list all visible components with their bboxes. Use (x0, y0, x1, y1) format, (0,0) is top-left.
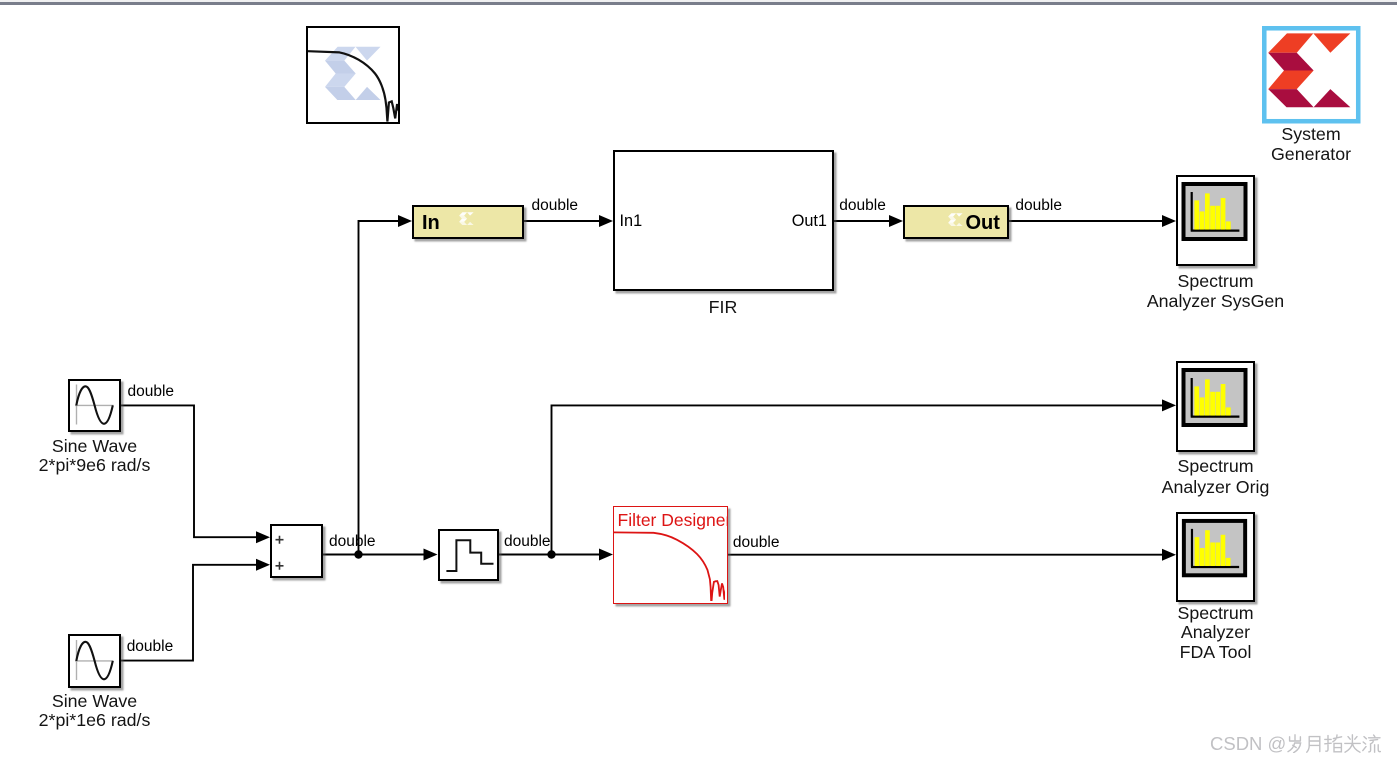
block Sine Wave 1 (68, 379, 121, 432)
block FDATool preview (top-left) (306, 26, 400, 124)
signal label double (filter out) (733, 535, 780, 550)
signal label double (In out) (532, 198, 579, 213)
port label In1 (620, 213, 643, 229)
junction node after sum (354, 550, 362, 558)
label System Generator (1271, 124, 1351, 165)
plus sign input 2 (276, 561, 284, 569)
signal label double (sine1) (128, 384, 175, 399)
watermark CSDN (1210, 734, 1381, 754)
port arrow sum input 2 (256, 559, 270, 571)
wire quantizer output to Filter Designer (499, 554, 600, 556)
block Quantizer (438, 529, 500, 582)
signal label double (sine2) (127, 639, 174, 654)
label Filter Designer (clipped) (618, 510, 732, 530)
port arrow Filter Designer input (599, 549, 613, 561)
label Spectrum Analyzer Orig (1162, 456, 1270, 497)
label Spectrum Analyzer FDA Tool (1177, 604, 1253, 663)
red filter response curve (614, 532, 729, 604)
wire sine1 to sum input 1 (121, 405, 257, 537)
wire FIR Out1 to Out gateway (834, 220, 891, 222)
port arrow In gateway input (398, 215, 412, 227)
block FIR subsystem (613, 150, 834, 291)
wire Out gateway to Spectrum Analyzer SysGen (1009, 220, 1163, 222)
filter response curve (308, 51, 398, 121)
wire sum output to quantizer (323, 554, 425, 556)
block Sum (270, 524, 323, 579)
label Spectrum Analyzer SysGen (1147, 271, 1284, 312)
block System Generator token (1262, 26, 1361, 124)
block Gateway In (412, 205, 524, 239)
port arrow Spectrum FDA input (1162, 549, 1176, 561)
top light strip (0, 0, 1397, 2)
wire Filter Designer to Spectrum Analyzer FDA Tool (728, 554, 1164, 556)
port arrow Out gateway input (889, 215, 903, 227)
port arrow Spectrum SysGen input (1162, 215, 1176, 227)
plus sign input 1 (276, 535, 284, 543)
port label Out1 (792, 213, 827, 229)
block Spectrum Analyzer FDA Tool (1176, 512, 1255, 602)
signal label double (sum out) (329, 534, 376, 549)
top toolbar divider bar (0, 2, 1397, 5)
wire sine2 to sum input 2 (121, 565, 257, 661)
block Gateway Out (903, 205, 1009, 239)
block Spectrum Analyzer SysGen (1176, 175, 1255, 266)
block Spectrum Analyzer Orig (1176, 361, 1255, 452)
block Sine Wave 2 (68, 634, 121, 688)
wire In gateway to FIR (524, 220, 600, 222)
wire junction up to In gateway (359, 221, 400, 555)
label Sine Wave 2 (39, 692, 151, 731)
junction node after quantizer (547, 550, 555, 558)
label FIR (709, 297, 738, 317)
port arrow sum input 1 (256, 531, 270, 543)
block Filter Designer (613, 506, 728, 604)
signal label double (FIR out) (839, 198, 886, 213)
staircase icon (446, 540, 493, 571)
wire junction up to Spectrum Analyzer Orig (552, 405, 1164, 554)
watermark Xilinx sigma (pale) (324, 47, 380, 100)
label Sine Wave 1 (39, 437, 151, 476)
port arrow Spectrum Orig input (1162, 399, 1176, 411)
signal label double (quantizer out) (504, 534, 551, 549)
port arrow quantizer input (424, 549, 438, 561)
port arrow FIR In1 (599, 215, 613, 227)
signal label double (Out out) (1015, 198, 1062, 213)
